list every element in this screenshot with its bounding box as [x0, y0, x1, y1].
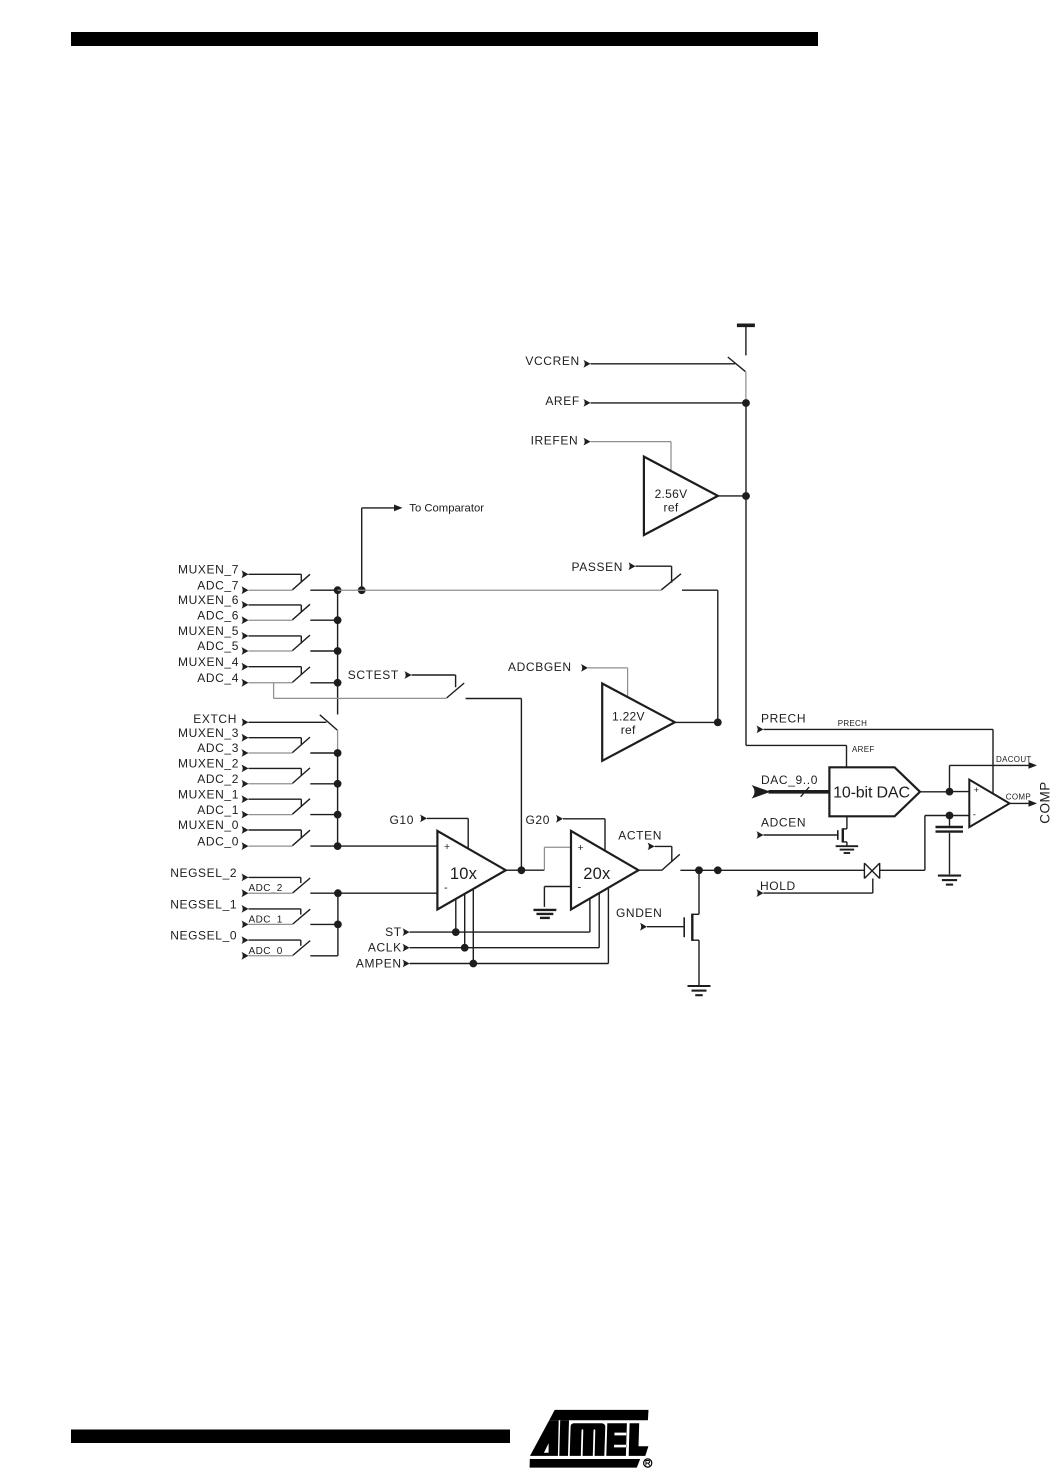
svg-text:ADC_7: ADC_7 — [197, 578, 239, 592]
wire mux output to PASSEN switch — [338, 589, 662, 591]
junction ACLK to 10x — [461, 944, 469, 952]
svg-text:MUXEN_1: MUXEN_1 — [178, 787, 239, 801]
svg-text:ADC_0: ADC_0 — [249, 946, 283, 957]
switch SW_NEGSEL_1 lever — [293, 909, 310, 924]
switch SW_ADC_4 lever — [292, 667, 310, 683]
wire PASSEN switch output — [682, 589, 718, 591]
svg-text:ADC_4: ADC_4 — [197, 671, 239, 685]
junction ADC_3 lower bus — [334, 749, 342, 757]
svg-text:GNDEN: GNDEN — [616, 906, 662, 920]
svg-text:ACLK: ACLK — [368, 941, 402, 955]
node 2.56V output junction — [742, 492, 750, 500]
svg-text:AREF: AREF — [852, 745, 875, 754]
wire ADC_2 to lower bus — [310, 783, 337, 785]
svg-text:-: - — [578, 881, 582, 893]
wire ADC_4 tap to SCTEST — [273, 683, 275, 699]
svg-text:DACOUT: DACOUT — [996, 755, 1032, 764]
svg-text:ADC_1: ADC_1 — [197, 803, 239, 817]
wire SCTEST switch output — [466, 698, 522, 700]
node to-comparator tap — [358, 586, 366, 594]
svg-text:NEGSEL_0: NEGSEL_0 — [170, 929, 237, 943]
svg-text:NEGSEL_1: NEGSEL_1 — [170, 897, 237, 911]
switch SW_NEGSEL_2 lever — [293, 878, 310, 893]
wire AREF vertical bus — [745, 403, 747, 745]
wire 20x output — [639, 869, 662, 871]
wire positive mux to 10x + — [338, 845, 438, 847]
svg-text:+: + — [444, 841, 450, 853]
switch SW_ADC_3_lo lever — [292, 737, 310, 753]
svg-text:G20: G20 — [525, 813, 550, 827]
transistor GNDEN nmos — [683, 917, 685, 937]
input ADC_0 neg — [242, 952, 249, 960]
wire HOLD to switch — [872, 879, 874, 894]
wire 10x output — [506, 869, 522, 871]
svg-text:G10: G10 — [389, 813, 414, 827]
wire ADC_5 to bus — [310, 650, 337, 652]
svg-text:MUXEN_5: MUXEN_5 — [178, 624, 239, 638]
switch SW_SCTEST lever — [447, 683, 465, 698]
wire AMPEN to 10x — [472, 889, 474, 964]
switch SW_NEGSEL_0 lever — [293, 941, 310, 956]
svg-text:20x: 20x — [583, 865, 611, 883]
switch SW_EXTCH lever — [320, 715, 338, 730]
wire ST to 10x — [455, 899, 457, 932]
svg-text:-: - — [444, 882, 448, 894]
svg-text:ADCEN: ADCEN — [761, 816, 806, 830]
wire DAC output — [920, 791, 950, 793]
junction AMPEN to 10x — [469, 960, 477, 968]
ground ADCEN source — [836, 845, 859, 847]
wire ADC_0 neg to bus — [310, 955, 338, 957]
svg-text:ST: ST — [385, 925, 402, 939]
svg-text:ADC_2: ADC_2 — [197, 772, 239, 786]
svg-text:NEGSEL_2: NEGSEL_2 — [170, 866, 237, 880]
wire VCCREN switch to AREF node — [745, 372, 747, 404]
wire ADC_1 neg to bus — [310, 923, 338, 925]
svg-text:AMPEN: AMPEN — [356, 956, 402, 970]
comparator U4 — [969, 780, 1009, 828]
wire to comparator - — [950, 815, 970, 817]
junction negative bus ADC_1 — [334, 921, 342, 929]
wire EXTCH to lower bus — [337, 730, 339, 753]
svg-text:ADC_3: ADC_3 — [197, 741, 239, 755]
svg-text:SCTEST: SCTEST — [348, 668, 399, 682]
wire ST to 20x — [589, 899, 591, 933]
op-amp 1.22V reference — [602, 684, 675, 761]
input ADC_1 neg — [242, 921, 249, 929]
svg-text:MUXEN_4: MUXEN_4 — [178, 655, 239, 669]
svg-text:DAC_9..0: DAC_9..0 — [761, 773, 818, 787]
junction GNDEN branch — [695, 866, 703, 874]
svg-text:HOLD: HOLD — [760, 879, 796, 893]
svg-text:+: + — [974, 785, 979, 795]
svg-text:-: - — [973, 810, 976, 821]
ground sample cap — [938, 875, 961, 877]
svg-text:To Comparator: To Comparator — [409, 503, 484, 515]
wire ADC_7 to bus — [310, 589, 337, 591]
svg-text:IREFEN: IREFEN — [531, 434, 579, 448]
wire ADC_4 to bus — [310, 682, 337, 684]
capacitor sample hold — [949, 816, 951, 826]
input ADC_2 neg — [242, 889, 249, 897]
svg-text:ref: ref — [664, 501, 679, 515]
switch SW_ADC_6 lever — [292, 604, 310, 620]
junction ADC_5 bus — [334, 647, 342, 655]
junction comparator - input — [946, 812, 954, 820]
wire positive mux upper bus — [337, 590, 339, 714]
svg-text:PRECH: PRECH — [838, 719, 868, 728]
switch SW_ADC_1_lo lever — [292, 799, 310, 815]
svg-text:ADC_2: ADC_2 — [249, 883, 283, 894]
svg-text:MUXEN_7: MUXEN_7 — [178, 563, 239, 577]
wire AREF to DAC — [746, 744, 847, 746]
svg-text:+: + — [578, 842, 584, 854]
op-amp 10x gain stage — [437, 831, 505, 910]
svg-text:1.22V: 1.22V — [612, 710, 645, 724]
svg-text:VCCREN: VCCREN — [525, 354, 579, 368]
wire ACTEN output — [680, 869, 864, 871]
switch SW_PASSEN lever — [661, 574, 681, 590]
wire ACLK to 10x — [464, 894, 466, 948]
transistor ADCEN nmos — [837, 830, 839, 840]
wire ADC_2 neg to bus — [310, 892, 338, 894]
svg-text:ref: ref — [621, 723, 636, 737]
svg-text:ADCBGEN: ADCBGEN — [508, 660, 572, 674]
svg-text:MUXEN_6: MUXEN_6 — [178, 593, 239, 607]
wire 10x output to 20x + — [521, 869, 544, 871]
junction ADC_6 bus — [334, 616, 342, 624]
wire ADC_0 to lower bus — [310, 845, 337, 847]
svg-text:PASSEN: PASSEN — [571, 560, 623, 574]
wire negative mux to 10x - — [338, 892, 438, 894]
wire negative mux bus — [337, 893, 339, 956]
wire COMP output — [1010, 802, 1031, 804]
wire DACOUT — [949, 765, 951, 791]
svg-text:COMP: COMP — [1006, 793, 1031, 802]
wire after sample switch — [880, 869, 925, 871]
junction PASSEN line — [714, 866, 722, 874]
wire 1.22V ref output — [675, 721, 718, 723]
junction ST to 10x — [452, 928, 460, 936]
ground GNDEN source — [688, 985, 711, 987]
wire to comparator — [361, 508, 363, 590]
wire ACLK to 20x — [598, 893, 600, 948]
switch SW_ADC_5 lever — [292, 635, 310, 651]
node AREF junction — [742, 399, 750, 407]
svg-text:ADC_1: ADC_1 — [249, 914, 283, 925]
ground 20x minus input — [533, 909, 556, 911]
switch SW_ACTEN lever — [662, 854, 680, 870]
power VCC — [737, 323, 755, 327]
switch SW_ADC_7 lever — [292, 574, 310, 590]
wire PRECH to comparator — [992, 729, 994, 793]
junction DAC output — [946, 788, 954, 796]
svg-text:ACTEN: ACTEN — [618, 829, 662, 843]
svg-text:ADC_5: ADC_5 — [197, 639, 239, 653]
switch SW_VCCREN lever — [728, 357, 746, 372]
svg-text:10-bit DAC: 10-bit DAC — [833, 785, 910, 802]
wire ADC_6 to bus — [310, 619, 337, 621]
wire DAC to comparator + — [950, 791, 970, 793]
svg-text:ADC_0: ADC_0 — [197, 834, 239, 848]
svg-text:MUXEN_0: MUXEN_0 — [178, 818, 239, 832]
svg-text:EXTCH: EXTCH — [193, 712, 237, 726]
node 1.22V/PASSEN junction — [714, 719, 722, 727]
wire 2.56V ref output — [718, 495, 746, 497]
svg-text:MUXEN_3: MUXEN_3 — [178, 726, 239, 740]
wire AMPEN to 20x — [607, 888, 609, 964]
switch sample-hold gate — [864, 863, 879, 878]
switch SW_ADC_0_lo lever — [292, 830, 310, 846]
svg-text:10x: 10x — [450, 865, 478, 883]
svg-text:2.56V: 2.56V — [655, 487, 688, 501]
junction 10x output / SCTEST — [518, 866, 526, 874]
svg-text:MUXEN_2: MUXEN_2 — [178, 757, 239, 771]
junction negative bus ADC_2 — [334, 889, 342, 897]
svg-text:ADC_6: ADC_6 — [197, 608, 239, 622]
bus width slash — [801, 787, 810, 797]
wire 20x - to ground — [544, 886, 571, 888]
junction ADC_1 lower bus — [334, 811, 342, 819]
wire ADC_3 to lower bus — [310, 752, 337, 754]
junction ADC_2 lower bus — [334, 780, 342, 788]
svg-text:COMP: COMP — [1038, 781, 1053, 824]
dac U3 10-bit DAC — [829, 767, 920, 816]
wire ADC_1 to lower bus — [310, 814, 337, 816]
junction ADC_4 bus — [334, 679, 342, 687]
op-amp 20x gain stage — [571, 831, 639, 910]
op-amp 2.56V reference — [644, 457, 718, 535]
switch SW_ADC_2_lo lever — [292, 768, 310, 784]
svg-text:PRECH: PRECH — [761, 712, 806, 726]
junction ADC_7 bus — [334, 586, 342, 594]
junction ADC_0 lower bus — [334, 842, 342, 850]
wire positive mux lower bus — [337, 753, 339, 846]
svg-text:AREF: AREF — [545, 394, 579, 408]
